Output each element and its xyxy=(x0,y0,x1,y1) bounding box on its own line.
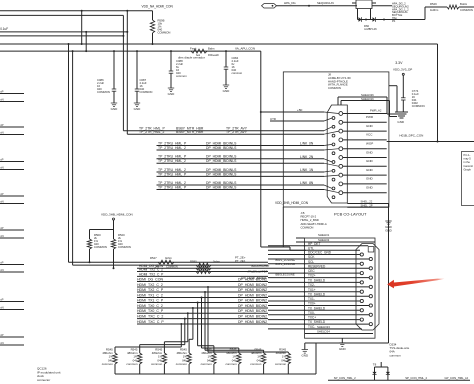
svg-text:common: common xyxy=(126,362,137,366)
svg-text:TX1+: TX1+ xyxy=(308,288,316,292)
svg-text:0ohm: 0ohm xyxy=(165,256,173,260)
svg-text:common: common xyxy=(151,362,162,366)
svg-text:xN: xN xyxy=(0,97,3,101)
svg-text:common: common xyxy=(226,362,237,366)
svg-text:xN: xN xyxy=(0,341,3,345)
svg-text:TP_2TR_AVY: TP_2TR_AVY xyxy=(226,130,248,134)
svg-text:HDMI_TX2_C_2: HDMI_TX2_C_2 xyxy=(137,283,163,287)
svg-text:RCbead0: RCbead0 xyxy=(208,54,219,57)
svg-text:DP_HDMI_BIDINLS: DP_HDMI_BIDINLS xyxy=(206,141,237,145)
svg-text:R547: R547 xyxy=(150,256,157,260)
svg-text:common: common xyxy=(232,71,243,75)
svg-text:DP_HDMI_BIDINLS: DP_HDMI_BIDINLS xyxy=(206,159,237,163)
svg-text:PT_2E1: PT_2E1 xyxy=(235,259,246,263)
svg-text:Pb: Pb xyxy=(392,19,396,23)
svg-text:UTD: UTD xyxy=(270,117,276,121)
svg-text:TX1-: TX1- xyxy=(308,297,315,301)
svg-text:TXC-: TXC- xyxy=(308,325,315,329)
svg-text:xP: xP xyxy=(0,333,3,337)
svg-text:Pin 1-: Pin 1- xyxy=(464,153,471,157)
svg-text:1k0hm: 1k0hm xyxy=(430,8,439,12)
svg-text:+PALDN_LVPDF: +PALDN_LVPDF xyxy=(247,269,268,273)
svg-text:xP: xP xyxy=(0,226,3,230)
svg-text:COMMON: COMMON xyxy=(158,31,171,35)
svg-text:GND: GND xyxy=(366,124,374,128)
svg-text:GND: GND xyxy=(366,150,374,154)
svg-text:common: common xyxy=(102,362,113,366)
svg-text:VDD_NA_HDMI_CON: VDD_NA_HDMI_CON xyxy=(142,5,174,9)
svg-text:transmit: transmit xyxy=(464,164,474,168)
svg-text:SCK: SCK xyxy=(308,255,315,259)
svg-text:xP: xP xyxy=(0,297,3,301)
svg-text:COMMON: COMMON xyxy=(94,245,107,249)
svg-text:TP_2TRU_HML_P: TP_2TRU_HML_P xyxy=(158,141,187,145)
svg-text:GND: GND xyxy=(366,177,374,181)
svg-text:common: common xyxy=(390,353,401,357)
svg-text:COMMON: COMMON xyxy=(328,86,341,90)
svg-text:DP_HDMI_BIDINLS: DP_HDMI_BIDINLS xyxy=(206,155,237,159)
svg-text:TX2-: TX2- xyxy=(308,283,315,287)
svg-text:Graph: Graph xyxy=(464,167,472,171)
svg-text:HP_DET: HP_DET xyxy=(308,242,320,246)
svg-text:xN: xN xyxy=(0,268,3,272)
svg-text:0ohm: 0ohm xyxy=(213,259,221,263)
svg-text:HDMI_TX2_C_P: HDMI_TX2_C_P xyxy=(137,288,164,292)
svg-text:dies diacle cervador: dies diacle cervador xyxy=(178,56,205,60)
svg-text:SP_CON_HML_2: SP_CON_HML_2 xyxy=(334,376,356,380)
svg-text:common: common xyxy=(275,362,286,366)
svg-text:SP_CON_HML_2: SP_CON_HML_2 xyxy=(405,376,427,380)
svg-text:RESERVED: RESERVED xyxy=(308,264,326,268)
svg-text:DP_HDMI_BIDINLS: DP_HDMI_BIDINLS xyxy=(206,146,237,150)
svg-text:L/NK_2N: L/NK_2N xyxy=(300,155,314,159)
svg-text:xP: xP xyxy=(0,123,3,127)
svg-text:VDD_3HB_HDMI_CON: VDD_3HB_HDMI_CON xyxy=(101,213,133,217)
svg-text:T8: T8 xyxy=(373,363,377,367)
svg-text:L/NK_0N: L/NK_0N xyxy=(300,142,314,146)
svg-text:Bahn: Bahn xyxy=(208,47,215,51)
svg-text:PWR_A2: PWR_A2 xyxy=(370,109,382,113)
svg-text:xP: xP xyxy=(0,260,3,264)
svg-text:H01B_DPC_CON: H01B_DPC_CON xyxy=(399,134,423,138)
svg-text:may 5: may 5 xyxy=(464,157,472,161)
svg-text:TX_SHIELD: TX_SHIELD xyxy=(308,292,326,296)
svg-text:DP_HDMI_BIDINLS: DP_HDMI_BIDINLS xyxy=(206,181,237,185)
svg-text:HDMI_TX1_C_2: HDMI_TX1_C_2 xyxy=(137,293,163,297)
svg-text:DP_HDMI_BIDIN2: DP_HDMI_BIDIN2 xyxy=(238,304,267,308)
svg-text:GND: GND xyxy=(385,229,391,233)
svg-text:connector: connector xyxy=(37,378,50,382)
svg-text:HDMI_TX0_C_P: HDMI_TX0_C_P xyxy=(137,309,164,313)
svg-text:TP_2TR_HML_2: TP_2TR_HML_2 xyxy=(139,130,165,134)
svg-text:0.1uF: 0.1uF xyxy=(0,27,8,31)
svg-text:COMMON: COMMON xyxy=(412,104,425,108)
svg-text:WOP: WOP xyxy=(366,142,373,146)
svg-text:VCC: VCC xyxy=(366,133,373,137)
svg-text:SHELD24: SHELD24 xyxy=(317,329,330,333)
svg-text:+5D: +5D xyxy=(297,108,302,112)
svg-text:DP_HDMI_BIDIN2: DP_HDMI_BIDIN2 xyxy=(238,298,267,302)
svg-text:TX2+: TX2+ xyxy=(308,274,316,278)
svg-text:TX_SHIELD: TX_SHIELD xyxy=(308,279,326,283)
svg-text:xN: xN xyxy=(0,130,3,134)
svg-text:L/NK_1N: L/NK_1N xyxy=(300,168,314,172)
svg-text:SHELD23: SHELD23 xyxy=(317,325,330,329)
svg-text:xN: xN xyxy=(0,199,3,203)
svg-text:GND: GND xyxy=(111,107,119,111)
svg-text:TXC+: TXC+ xyxy=(308,316,316,320)
svg-text:DP_HDMI_BIDIN2: DP_HDMI_BIDIN2 xyxy=(238,283,267,287)
svg-text:HDMI_TXC_C_P: HDMI_TXC_C_P xyxy=(137,320,164,324)
svg-text:DP_HDMI_BIDIN2: DP_HDMI_BIDIN2 xyxy=(238,288,267,292)
svg-text:TP_2TRU_HML_2: TP_2TRU_HML_2 xyxy=(158,168,186,172)
svg-text:DP_HDMI_BIDINLS: DP_HDMI_BIDINLS xyxy=(206,172,237,176)
svg-text:PCB CO-LAYOUT: PCB CO-LAYOUT xyxy=(334,212,367,217)
svg-text:GP_CON_HML_L0: GP_CON_HML_L0 xyxy=(445,376,469,380)
svg-text:GND: GND xyxy=(366,168,374,172)
svg-text:4-MBH-46: 4-MBH-46 xyxy=(364,27,377,31)
svg-text:R580: R580 xyxy=(190,259,197,263)
svg-text:GND: GND xyxy=(366,186,374,190)
svg-text:HDMI_TX2_C_2: HDMI_TX2_C_2 xyxy=(139,268,163,272)
svg-text:xN: xN xyxy=(0,305,3,309)
svg-text:GND: GND xyxy=(301,354,309,358)
svg-text:common: common xyxy=(176,362,187,366)
svg-text:HDMI_TX1_C_P: HDMI_TX1_C_P xyxy=(137,298,164,302)
svg-text:COMMON: COMMON xyxy=(140,90,153,94)
svg-text:BSBY_MTR_HBR: BSBY_MTR_HBR xyxy=(176,130,204,134)
svg-text:VDD_3V3_DP: VDD_3V3_DP xyxy=(393,68,412,72)
svg-text:BACKHIGHBT: BACKHIGHBT xyxy=(252,264,270,268)
svg-text:DP_HDMI_BIDIN2: DP_HDMI_BIDIN2 xyxy=(238,320,267,324)
svg-text:TX_SHIELD: TX_SHIELD xyxy=(308,306,326,310)
svg-text:GND: GND xyxy=(366,159,374,163)
svg-text:HDMI_TX2_C_P: HDMI_TX2_C_P xyxy=(139,272,163,276)
svg-text:SCL: SCL xyxy=(308,260,314,264)
svg-text:xP: xP xyxy=(0,192,3,196)
svg-text:xP: xP xyxy=(0,157,3,161)
svg-text:HPA_DG: HPA_DG xyxy=(284,1,296,5)
svg-text:L/NK_8N: L/NK_8N xyxy=(300,181,314,185)
svg-text:TP_2TRU_HML_P: TP_2TRU_HML_P xyxy=(158,155,187,159)
svg-text:PWR: PWR xyxy=(366,115,374,119)
svg-text:TP_2TRU_HML_P: TP_2TRU_HML_P xyxy=(158,185,187,189)
svg-text:SEQURGUN: SEQURGUN xyxy=(317,1,334,5)
svg-text:COMMON: COMMON xyxy=(301,225,314,229)
svg-text:DP_HDMI_BIDIN2: DP_HDMI_BIDIN2 xyxy=(238,309,267,313)
svg-text:VDD_3HB_HDMI_CON: VDD_3HB_HDMI_CON xyxy=(275,201,309,205)
svg-text:GND: GND xyxy=(223,89,231,93)
svg-text:common: common xyxy=(176,74,187,78)
svg-text:GND: GND xyxy=(339,347,347,351)
svg-text:xP: xP xyxy=(0,89,3,93)
svg-text:CEC: CEC xyxy=(308,269,315,273)
svg-text:TP_2TRU_HML_P: TP_2TRU_HML_P xyxy=(158,172,187,176)
svg-text:TP_2TRU_HML_2: TP_2TRU_HML_2 xyxy=(158,146,186,150)
svg-text:SHELD1h: SHELD1h xyxy=(361,97,374,101)
svg-text:DP_HDMI_BIDIN2: DP_HDMI_BIDIN2 xyxy=(238,277,267,281)
svg-text:HDMI_DG_CON: HDMI_DG_CON xyxy=(137,277,163,281)
svg-text:COMMON: COMMON xyxy=(97,90,110,94)
svg-text:R549: R549 xyxy=(430,2,437,6)
svg-text:DP_HDMI_BIDINLS: DP_HDMI_BIDINLS xyxy=(206,185,237,189)
svg-text:GND: GND xyxy=(134,107,142,111)
svg-text:TX0-: TX0- xyxy=(308,311,315,315)
svg-text:COMMON: COMMON xyxy=(460,8,473,12)
svg-text:common: common xyxy=(201,362,212,366)
svg-text:COMMON: COMMON xyxy=(118,245,131,249)
svg-text:Bottm: Bottm xyxy=(460,2,468,6)
svg-text:GND: GND xyxy=(397,120,405,124)
svg-text:Ferrit: Ferrit xyxy=(190,47,197,51)
svg-text:TX_SHIELD: TX_SHIELD xyxy=(308,320,326,324)
svg-text:SHELD1: SHELD1 xyxy=(318,233,330,237)
svg-text:TP_2TRU_HML_2: TP_2TRU_HML_2 xyxy=(158,159,186,163)
svg-text:HDMI_TX0_C_2: HDMI_TX0_C_2 xyxy=(137,304,163,308)
svg-text:HDMI_TXC_C_2: HDMI_TXC_C_2 xyxy=(137,314,163,318)
svg-text:in the: in the xyxy=(464,160,471,164)
svg-text:DP_HDMI_BIDIN2: DP_HDMI_BIDIN2 xyxy=(238,314,267,318)
svg-text:VA_APU_CON: VA_APU_CON xyxy=(235,47,255,51)
svg-text:TX0+: TX0+ xyxy=(308,302,316,306)
svg-text:SHEL_2P: SHEL_2P xyxy=(361,203,373,207)
svg-text:DP_HDMI_BIDINLS: DP_HDMI_BIDINLS xyxy=(206,168,237,172)
svg-text:3.3V: 3.3V xyxy=(395,61,403,65)
svg-text:DP_HDMI_BIDIN2: DP_HDMI_BIDIN2 xyxy=(238,293,267,297)
svg-text:xN: xN xyxy=(0,234,3,238)
svg-text:DDC/CEC_GND: DDC/CEC_GND xyxy=(308,251,332,255)
svg-text:common: common xyxy=(250,362,261,366)
svg-text:TP_2TRU_HML_2: TP_2TRU_HML_2 xyxy=(158,181,186,185)
svg-text:GND: GND xyxy=(168,92,176,96)
svg-text:xN: xN xyxy=(0,165,3,169)
